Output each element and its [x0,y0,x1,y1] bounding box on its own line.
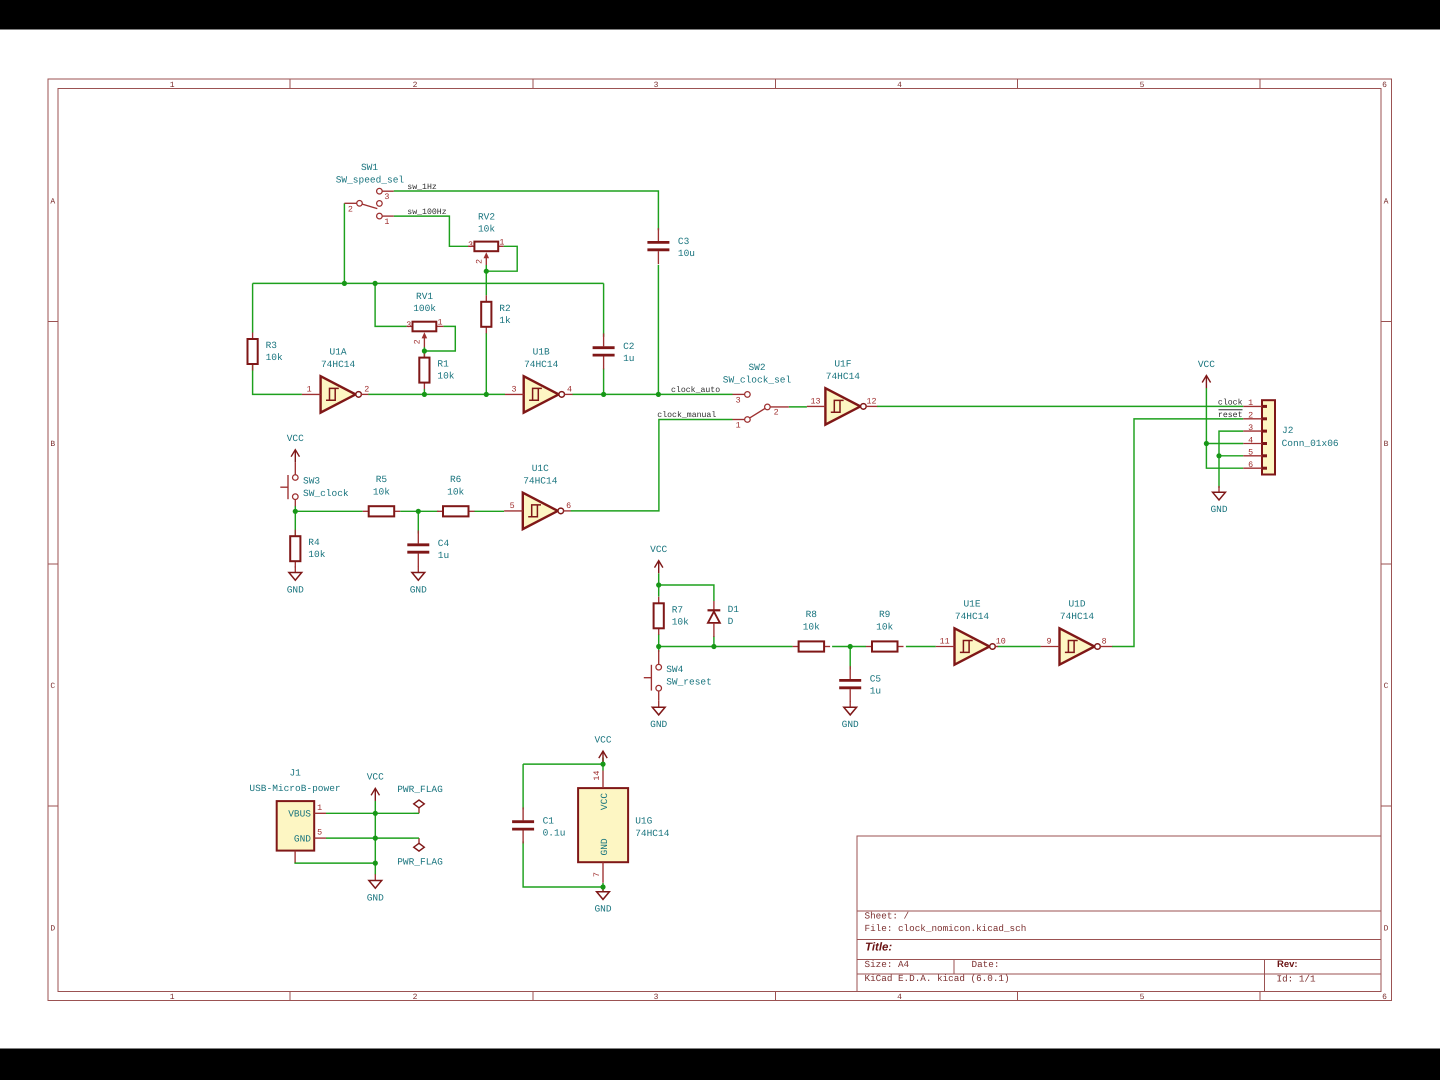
wire to J2 pin4 [1206,443,1243,445]
svg-text:10k: 10k [308,549,325,560]
svg-text:R6: R6 [450,474,462,485]
junction [601,392,606,397]
svg-text:R8: R8 [806,609,818,620]
resistor R9 10k [866,609,904,651]
svg-text:1: 1 [170,81,175,90]
svg-text:GND: GND [1210,504,1227,515]
svg-text:2: 2 [348,205,353,215]
ground below C5 [842,701,859,730]
junction [848,644,853,649]
svg-text:1u: 1u [870,685,881,696]
svg-text:VBUS: VBUS [288,808,311,819]
svg-text:6: 6 [1382,993,1387,1002]
ground below C4 [410,566,427,595]
svg-text:R7: R7 [672,604,683,615]
junction [484,392,489,397]
ground below J2 [1210,486,1227,515]
svg-text:Conn_01x06: Conn_01x06 [1282,438,1339,449]
svg-text:U1F: U1F [834,359,851,370]
svg-text:11: 11 [940,637,950,647]
svg-text:R4: R4 [308,537,320,548]
svg-text:100k: 100k [413,303,436,314]
svg-text:sw_100Hz: sw_100Hz [407,208,446,217]
ground below R4 [287,566,304,595]
junction [600,762,605,767]
svg-text:Title:: Title: [865,942,892,954]
svg-text:4: 4 [1248,435,1253,445]
wire R9 to U1E in [906,646,936,648]
wire U1A out to U1B in [368,393,505,395]
inverter U1B 74HC14 [511,347,572,413]
svg-text:2: 2 [475,259,485,264]
svg-text:4: 4 [567,384,572,394]
svg-text:sw_1Hz: sw_1Hz [407,183,437,192]
svg-text:6: 6 [566,501,571,511]
svg-text:C4: C4 [438,538,450,549]
svg-text:SW_clock_sel: SW_clock_sel [723,374,792,385]
svg-text:3: 3 [1248,423,1253,433]
switch SW4 SW_reset pushbutton [644,650,712,701]
svg-text:C2: C2 [623,341,635,352]
svg-text:Id: 1/1: Id: 1/1 [1277,973,1316,984]
svg-text:R1: R1 [437,359,449,370]
svg-text:74HC14: 74HC14 [321,359,356,370]
pin stub U1C input [504,510,523,512]
junction [1204,441,1209,446]
resistor R6 10k [437,474,475,516]
svg-text:6: 6 [1382,81,1387,90]
power flag PWR_FLAG on VBUS [397,784,443,813]
capacitor C5 1u [839,666,881,702]
svg-text:10k: 10k [437,371,454,382]
svg-text:10k: 10k [478,224,495,235]
svg-text:R2: R2 [499,303,511,314]
pin stub U1A output [361,393,368,395]
svg-text:Sheet: /: Sheet: / [865,911,910,922]
svg-text:R3: R3 [266,340,278,351]
wire reset node to R8 [659,646,793,648]
ground below U1G [594,885,611,914]
junction [373,836,378,841]
wire SW2 common to U1F [789,406,807,408]
wire to PWR_FLAG 1 [414,812,420,814]
svg-text:10k: 10k [266,352,283,363]
svg-text:1: 1 [437,317,442,327]
svg-text:1: 1 [317,803,322,813]
wire VCC node to J2 pin6 [1206,444,1243,469]
inverter U1C 74HC14 [510,463,572,529]
svg-text:4: 4 [897,993,902,1002]
svg-text:J1: J1 [289,767,301,778]
wire to PWR_FLAG 2 [414,837,420,839]
svg-text:3: 3 [511,384,516,394]
svg-text:4: 4 [897,81,902,90]
ground below SW4 [650,701,667,730]
pin stub U1E input [936,646,955,648]
inverter U1D 74HC14 [1046,599,1106,665]
svg-text:5: 5 [1248,448,1253,458]
svg-text:GND: GND [842,719,859,730]
resistor R4 10k [290,530,326,568]
wire pin7 node to GND [602,883,604,892]
wire C1 top left [522,764,524,809]
svg-text:1k: 1k [499,315,511,326]
wire VCC to R7 [658,573,660,596]
connector J1 USB-MicroB-power [249,767,340,862]
svg-text:SW_clock: SW_clock [303,488,349,499]
pin stub U1D output [1100,646,1112,648]
wire bus down to RV1 pin3 [375,283,407,326]
svg-text:SW3: SW3 [303,475,320,486]
svg-text:U1D: U1D [1068,599,1085,610]
wire sw_100Hz to RV2 pin3 [394,216,468,246]
capacitor C4 1u [407,531,449,567]
junction [711,644,716,649]
svg-text:74HC14: 74HC14 [523,475,558,486]
inverter U1E 74HC14 [940,599,1006,665]
wire SW1 common down to bus [343,203,345,283]
svg-text:1: 1 [499,237,504,247]
wire R3 to U1A input [253,363,302,394]
svg-text:5: 5 [510,501,515,511]
wire J2 pin5 [1219,455,1243,457]
wire R8 to R9 [832,646,866,648]
power VCC [367,772,384,801]
pin stub U1F output [866,405,877,407]
svg-text:reset: reset [1218,411,1243,420]
svg-text:1: 1 [736,420,741,430]
svg-text:R9: R9 [879,609,891,620]
svg-text:C1: C1 [543,816,555,827]
wire J2 pin3 to GND [1219,431,1243,488]
svg-text:10: 10 [996,637,1006,647]
svg-text:clock: clock [1218,399,1243,408]
svg-text:74HC14: 74HC14 [635,828,670,839]
svg-text:U1G: U1G [635,816,652,827]
potentiometer RV2 10k [468,212,504,266]
pin stub U1D input [1041,646,1060,648]
pin stub U1B input [505,393,524,395]
wire R7 bottom to reset node [658,634,660,652]
svg-text:RV2: RV2 [478,212,495,223]
pin stub U1E output [995,646,998,648]
svg-text:USB-MicroB-power: USB-MicroB-power [249,783,340,794]
wire J1 shield to GND [295,862,375,863]
svg-text:2: 2 [413,993,418,1002]
wire node to R5 [295,510,362,512]
wire RV1 pin1 loop to wiper [424,326,455,351]
svg-text:U1C: U1C [532,463,549,474]
wire VCC node to D1 [659,585,714,601]
wire clock_auto [572,393,732,395]
wire VCC down to J2 pin4 [1205,388,1207,444]
svg-text:2: 2 [413,339,423,344]
svg-text:SW1: SW1 [361,162,378,173]
svg-text:GND: GND [287,584,304,595]
svg-text:10k: 10k [803,622,820,633]
svg-text:10k: 10k [876,622,893,633]
svg-text:A: A [1384,197,1389,206]
junction [293,509,298,514]
junction [373,281,378,286]
wire VCC to VBUS node [374,801,376,814]
junction [422,392,427,397]
junction [416,509,421,514]
switch SW2 SW_clock_sel [723,362,792,422]
resistor R8 10k [793,609,831,651]
svg-text:6: 6 [1248,460,1253,470]
svg-text:C: C [1384,682,1389,691]
junction [373,811,378,816]
svg-text:VCC: VCC [594,734,611,745]
svg-text:74HC14: 74HC14 [1060,611,1095,622]
svg-text:13: 13 [810,396,820,406]
svg-text:74HC14: 74HC14 [826,371,861,382]
svg-text:GND: GND [367,892,384,903]
svg-text:5: 5 [1140,993,1145,1002]
switch SW3 SW_clock pushbutton [280,462,349,506]
junction [656,582,661,587]
svg-text:U1E: U1E [963,599,980,610]
power VCC [594,734,611,763]
svg-text:VCC: VCC [287,433,304,444]
svg-text:GND: GND [294,833,311,844]
power VCC [650,544,667,573]
junction [422,348,427,353]
svg-text:File: clock_nomicon.kicad_sch: File: clock_nomicon.kicad_sch [865,923,1027,934]
wire R6 to U1C in [474,510,504,512]
svg-text:1: 1 [1248,398,1253,408]
pin stub U1F input [807,405,826,407]
svg-text:10u: 10u [678,248,695,259]
junction [656,392,661,397]
wire J1 VBUS to VCC [326,812,414,814]
power VCC [1198,359,1215,388]
wire RV2 pin1 loop to wiper [486,246,517,271]
svg-text:C: C [50,682,55,691]
wire node down to C4 [417,511,419,533]
wire VCC to pin14 node [602,758,604,771]
svg-text:VCC: VCC [599,793,610,810]
wire RV2 wiper to R2 [485,265,487,295]
svg-text:RV1: RV1 [416,291,433,302]
wire main bus [253,282,604,284]
svg-text:1u: 1u [438,550,449,561]
wire bus down to C2 [603,283,605,336]
svg-text:VCC: VCC [1198,359,1215,370]
svg-text:14: 14 [592,771,602,781]
svg-text:GND: GND [650,719,667,730]
svg-text:1: 1 [170,993,175,1002]
svg-text:SW_reset: SW_reset [666,677,712,688]
frame border [48,79,1391,1001]
wire D1 anode to reset node [713,636,715,647]
svg-text:R5: R5 [376,474,388,485]
svg-text:3: 3 [654,81,659,90]
title block [857,836,1381,992]
pin stub U1C output [563,510,571,512]
svg-text:2: 2 [364,384,369,394]
potentiometer RV1 100k [407,291,444,347]
junction [342,281,347,286]
svg-text:C5: C5 [870,673,882,684]
resistor R2 1k [481,295,511,333]
junction [484,269,489,274]
inverter U1F 74HC14 [810,359,876,425]
svg-text:B: B [1384,440,1389,449]
wire VBUS node down [374,813,376,874]
svg-text:5: 5 [317,828,322,838]
svg-text:12: 12 [866,396,876,406]
svg-text:0.1u: 0.1u [543,828,566,839]
svg-text:1u: 1u [623,353,634,364]
frame reference labels [50,81,1388,1002]
junction [373,861,378,866]
svg-text:7: 7 [592,872,602,877]
svg-text:SW_speed_sel: SW_speed_sel [336,174,405,185]
wire U1E out to U1D in [998,646,1041,648]
wire C1 bottom to U1G GND [523,841,603,887]
junction [600,884,605,889]
svg-text:KiCad E.D.A. kicad (6.0.1): KiCad E.D.A. kicad (6.0.1) [865,973,1010,984]
resistor R1 10k [419,351,455,389]
svg-text:PWR_FLAG: PWR_FLAG [397,857,443,868]
svg-text:74HC14: 74HC14 [524,359,559,370]
wire R1 bottom [423,389,425,395]
wire C2 bottom [603,369,605,395]
svg-text:PWR_FLAG: PWR_FLAG [397,784,443,795]
capacitor C1 0.1u [512,807,565,843]
svg-text:VCC: VCC [367,772,384,783]
pin stub U1B output [564,393,573,395]
svg-text:U1B: U1B [533,347,550,358]
svg-text:10k: 10k [447,486,464,497]
svg-text:clock_manual: clock_manual [657,411,716,420]
svg-text:2: 2 [1248,411,1253,421]
svg-text:clock_auto: clock_auto [671,386,720,395]
svg-text:10k: 10k [373,486,390,497]
svg-text:SW4: SW4 [666,664,683,675]
svg-text:C3: C3 [678,236,690,247]
power flag PWR_FLAG on GND [397,838,443,868]
wire node down to C5 [849,647,851,670]
svg-text:8: 8 [1102,637,1107,647]
svg-text:Size: A4: Size: A4 [865,959,910,970]
svg-text:D: D [50,925,55,934]
wire R2 bottom [485,333,487,394]
svg-text:3: 3 [654,993,659,1002]
ground below J1 [367,874,384,903]
svg-text:5: 5 [1140,81,1145,90]
svg-text:2: 2 [413,81,418,90]
svg-text:74HC14: 74HC14 [955,611,990,622]
wire U1C out clock_manual [571,420,733,511]
svg-text:Rev:: Rev: [1277,959,1298,970]
svg-text:1: 1 [307,384,312,394]
wire C1 top to U1G VCC [523,763,603,765]
svg-text:U1A: U1A [330,347,347,358]
pin stub U1A input [302,393,321,395]
svg-text:GND: GND [594,904,611,915]
resistor R3 10k [248,333,284,371]
wire J1 GND [326,837,414,839]
svg-text:D: D [1384,925,1389,934]
svg-text:GND: GND [599,838,610,855]
svg-text:3: 3 [406,320,411,330]
junction [1216,453,1221,458]
svg-text:GND: GND [410,584,427,595]
svg-text:D: D [728,616,734,627]
capacitor C3 10u [647,228,695,264]
svg-text:J2: J2 [1282,425,1294,436]
svg-text:A: A [50,197,55,206]
diode D1 [708,601,740,637]
wire C3 bottom [657,265,659,395]
connector J2 Conn_01x06 [1243,400,1339,474]
svg-text:Date:: Date: [972,959,1000,970]
wire SW3 to node [294,506,296,536]
wire U1F out to J2 clock [877,405,1243,407]
svg-text:3: 3 [468,240,473,250]
svg-text:SW2: SW2 [748,362,765,373]
title block text [865,911,1316,985]
inverter U1A 74HC14 [307,347,370,413]
svg-text:3: 3 [736,395,741,405]
wire U1D out to J2 reset [1112,419,1243,647]
ic U1G 74HC14 power unit [578,771,670,883]
switch SW1 SW_speed_sel [336,162,405,219]
svg-text:3: 3 [384,192,389,202]
wire RV1 wiper to R1 [423,347,425,357]
resistor R7 10k [654,597,690,635]
svg-text:10k: 10k [672,616,689,627]
svg-text:B: B [50,440,55,449]
power VCC [287,433,304,462]
svg-text:2: 2 [774,408,779,418]
wire R5 to R6 [400,510,438,512]
svg-text:D1: D1 [728,604,740,615]
resistor R5 10k [363,474,401,516]
wire sw_1Hz to C3 [394,191,659,230]
svg-text:9: 9 [1046,637,1051,647]
svg-text:VCC: VCC [650,544,667,555]
junction [656,644,661,649]
svg-text:1: 1 [384,217,389,227]
capacitor C2 1u [593,333,635,369]
wire bus down to R3 [252,283,254,332]
